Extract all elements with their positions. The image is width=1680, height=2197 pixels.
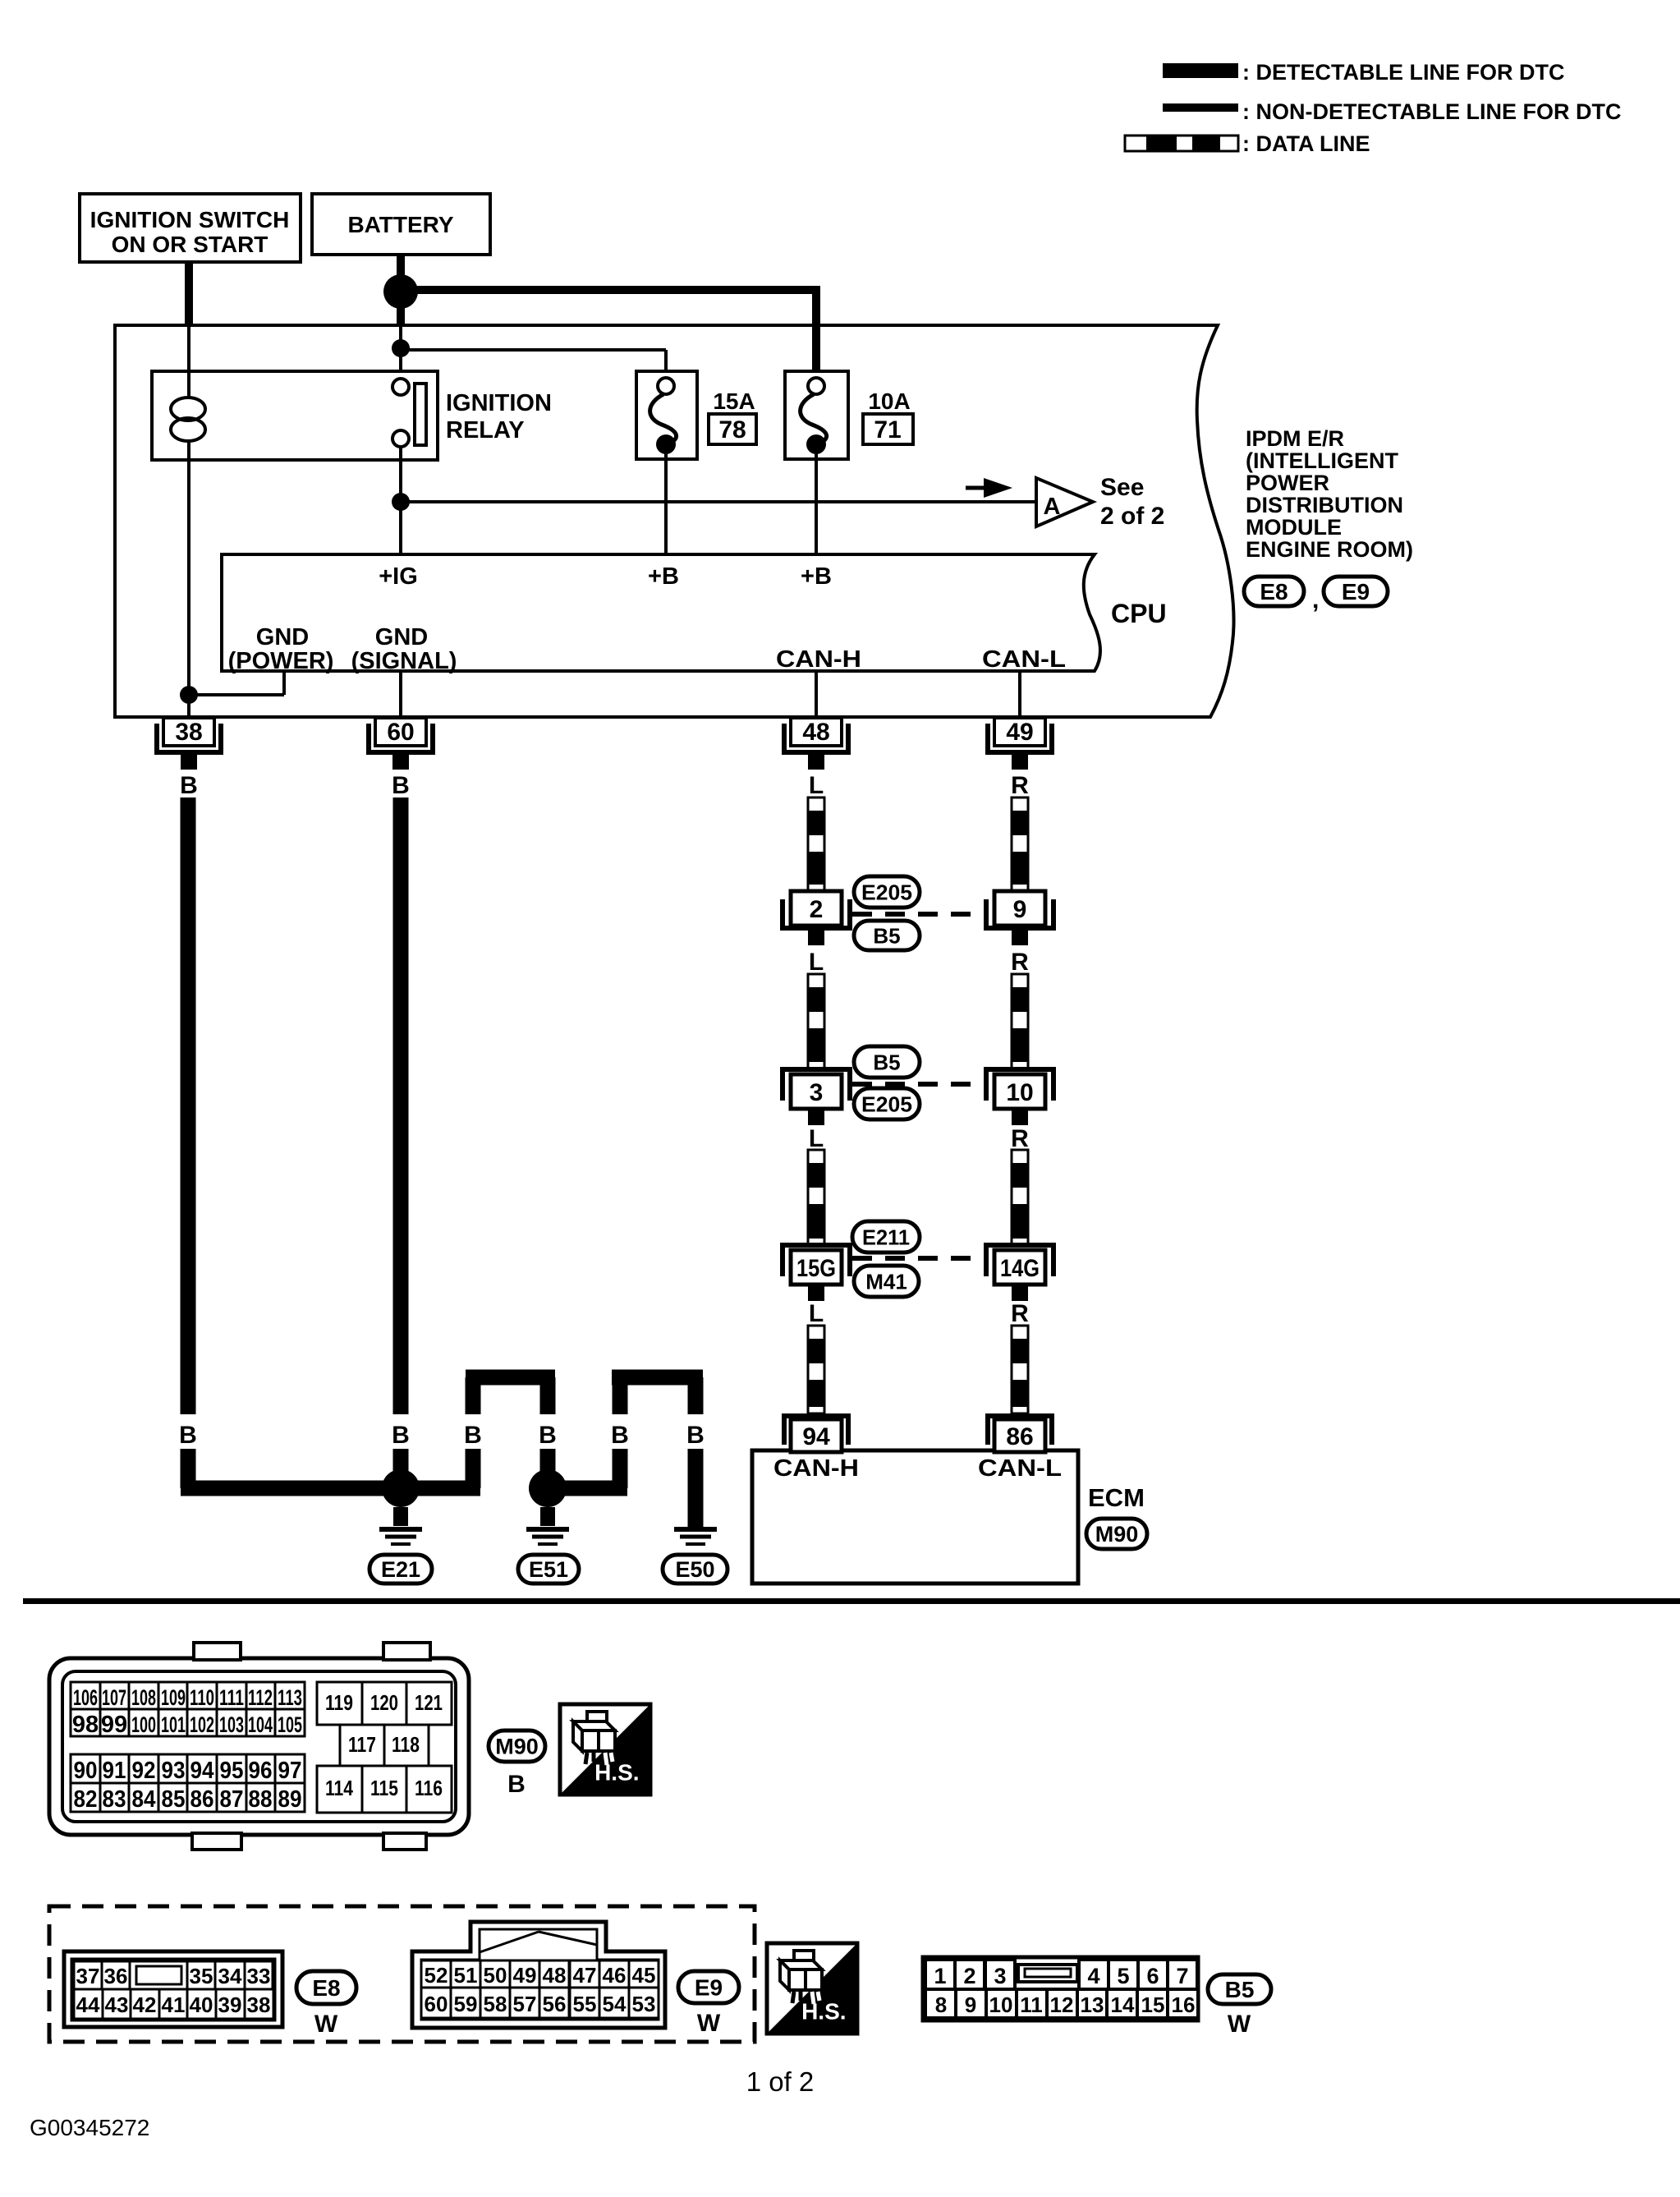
svg-text:9: 9 [965, 1992, 976, 2017]
svg-text:110: 110 [190, 1685, 214, 1710]
svg-text:L: L [809, 1125, 824, 1152]
M90 pin grid upper-left block [71, 1682, 100, 1709]
ground E51 [540, 1507, 555, 1526]
svg-text:43: 43 [105, 1992, 129, 2017]
svg-text:88: 88 [249, 1786, 273, 1813]
connector ref B5 face [1208, 1974, 1271, 2004]
svg-text:54: 54 [603, 1992, 627, 2016]
inline connector pin 15G (E211/M41) [783, 1245, 850, 1276]
svg-text:57: 57 [513, 1992, 537, 2016]
svg-text:111: 111 [219, 1685, 244, 1710]
connector face E8 [64, 1951, 282, 2027]
svg-text:(INTELLIGENT: (INTELLIGENT [1246, 448, 1398, 473]
dashed connector link 15G-14G [852, 1256, 985, 1261]
connector face E9 [412, 1922, 665, 2028]
svg-text:94: 94 [802, 1423, 830, 1450]
svg-text:91: 91 [103, 1758, 126, 1784]
svg-text:4: 4 [1087, 1964, 1099, 1988]
svg-text:L: L [809, 949, 824, 976]
svg-text:94: 94 [190, 1758, 214, 1784]
legend data line bar [1125, 136, 1238, 151]
connector ref E8 face [296, 1971, 356, 2004]
inline connector pin 2 (E205/B5) [783, 899, 850, 928]
svg-text:39: 39 [218, 1992, 242, 2017]
svg-text:,: , [1312, 586, 1319, 614]
svg-text:103: 103 [219, 1712, 244, 1737]
svg-text:MODULE: MODULE [1246, 515, 1342, 540]
svg-text:116: 116 [415, 1776, 443, 1800]
dashed connector link 2-9 [852, 912, 985, 917]
svg-text:G00345272: G00345272 [30, 2115, 149, 2140]
svg-text:CAN-L: CAN-L [982, 646, 1066, 673]
wire ignition switch to IPDM [185, 262, 193, 327]
svg-text:85: 85 [162, 1786, 186, 1813]
M90 pin grid right block row 114-116 [317, 1766, 362, 1813]
svg-text:106: 106 [73, 1685, 98, 1710]
svg-text:POWER: POWER [1246, 471, 1329, 495]
svg-text:: DETECTABLE LINE FOR DTC: : DETECTABLE LINE FOR DTC [1242, 60, 1564, 85]
connector ref E205 [854, 876, 920, 908]
IPDM pin 60 [369, 724, 433, 752]
svg-text:113: 113 [278, 1685, 302, 1710]
svg-text:(POWER): (POWER) [228, 648, 334, 674]
svg-text:B: B [180, 772, 198, 799]
svg-text:9: 9 [1013, 896, 1027, 923]
svg-text:48: 48 [802, 719, 829, 746]
svg-text:BATTERY: BATTERY [347, 212, 453, 237]
svg-text:52: 52 [425, 1963, 448, 1988]
svg-text:16: 16 [1172, 1992, 1196, 2017]
svg-text:96: 96 [249, 1758, 273, 1784]
svg-text:R: R [1011, 1300, 1029, 1327]
svg-text:10A: 10A [868, 388, 910, 414]
svg-text:(SIGNAL): (SIGNAL) [351, 648, 457, 674]
svg-text:See: See [1100, 474, 1144, 501]
inline connector pin 9 (E205/B5) [986, 899, 1053, 928]
svg-text:IGNITION SWITCH: IGNITION SWITCH [90, 207, 290, 232]
svg-text:CAN-H: CAN-H [773, 1455, 859, 1482]
svg-text:53: 53 [632, 1992, 656, 2016]
svg-text:L: L [809, 1300, 824, 1327]
data line CAN-H segment 4 [808, 1326, 824, 1413]
svg-text:1 of 2: 1 of 2 [746, 2066, 815, 2097]
svg-text:E51: E51 [529, 1557, 568, 1582]
M90 shell bottom tab left [192, 1833, 241, 1850]
svg-text:6: 6 [1146, 1964, 1159, 1988]
svg-text:100: 100 [131, 1712, 156, 1737]
wire ground bus left [181, 1481, 480, 1496]
svg-text:112: 112 [248, 1685, 273, 1710]
svg-text:E8: E8 [1260, 579, 1288, 604]
svg-text:120: 120 [370, 1690, 398, 1715]
wire battery down to relay contact [397, 307, 405, 327]
svg-text:M90: M90 [1095, 1522, 1139, 1547]
connector ref M90 [1086, 1519, 1147, 1549]
wire pin 38 ground detectable [181, 797, 196, 1414]
svg-text:89: 89 [278, 1786, 302, 1813]
svg-text:102: 102 [190, 1712, 214, 1737]
connector ref B5 [854, 1046, 920, 1078]
svg-text:2 of 2: 2 of 2 [1100, 503, 1164, 530]
svg-text:CPU: CPU [1111, 599, 1167, 628]
dashed connector link 3-10 [852, 1082, 985, 1087]
svg-text:107: 107 [102, 1685, 126, 1710]
svg-text:ECM: ECM [1088, 1483, 1145, 1512]
svg-text:B5: B5 [1225, 1977, 1255, 2002]
svg-text:E9: E9 [695, 1975, 723, 2001]
svg-text:71: 71 [874, 416, 901, 444]
ground E50 [674, 1527, 717, 1532]
svg-text:15: 15 [1141, 1992, 1165, 2017]
svg-text:40: 40 [190, 1992, 213, 2017]
H.S. harness side icon (E8/E9) [767, 1943, 857, 2034]
IPDM pin 48 [784, 724, 848, 752]
IPDM pin 49 [988, 724, 1052, 752]
svg-text:B: B [464, 1422, 482, 1449]
svg-text:56: 56 [543, 1992, 567, 2016]
svg-text:E21: E21 [381, 1557, 420, 1582]
svg-text:M41: M41 [865, 1269, 907, 1294]
svg-text:82: 82 [74, 1786, 98, 1813]
svg-text:121: 121 [415, 1690, 443, 1715]
svg-text:45: 45 [632, 1963, 656, 1988]
svg-text:115: 115 [370, 1776, 398, 1800]
svg-text:49: 49 [1006, 719, 1033, 746]
svg-text:B5: B5 [873, 923, 900, 948]
battery box [312, 194, 490, 255]
svg-text:CAN-H: CAN-H [776, 646, 861, 673]
svg-text:84: 84 [132, 1786, 156, 1813]
data line CAN-L segment 4 [1012, 1326, 1028, 1413]
connector ref B5 [854, 921, 920, 950]
inline connector pin 10 (B5/E205) [986, 1069, 1053, 1101]
ECM pin 94 [784, 1416, 848, 1445]
svg-text:104: 104 [248, 1712, 273, 1737]
svg-text:DISTRIBUTION: DISTRIBUTION [1246, 493, 1403, 517]
junction node to fuse 15A [392, 339, 410, 357]
svg-text:B: B [611, 1422, 629, 1449]
svg-text:RELAY: RELAY [446, 417, 525, 444]
ground loop U2 [466, 1370, 555, 1386]
svg-text:12: 12 [1050, 1992, 1074, 2017]
connector ref E205 [854, 1088, 920, 1119]
wire ground bus middle [540, 1481, 627, 1496]
svg-text:50: 50 [484, 1963, 507, 1988]
svg-text:+B: +B [801, 563, 832, 590]
svg-text:41: 41 [162, 1992, 186, 2017]
connector face B5 [923, 1957, 1198, 2020]
svg-text:B5: B5 [873, 1050, 900, 1074]
wire ignition switch inside IPDM to relay coil [187, 327, 190, 374]
section separator line [23, 1598, 1680, 1604]
svg-text:58: 58 [484, 1992, 507, 2016]
svg-text:48: 48 [543, 1963, 567, 1988]
wire battery feed down to fuse 10A [812, 286, 820, 378]
svg-text:49: 49 [513, 1963, 537, 1988]
svg-text:46: 46 [603, 1963, 627, 1988]
svg-text:87: 87 [220, 1786, 244, 1813]
svg-text:E205: E205 [861, 1092, 912, 1116]
arrow marker [966, 486, 985, 490]
wire CAN-L to pin 49 [1018, 671, 1021, 717]
svg-text:+IG: +IG [379, 563, 418, 590]
svg-text:38: 38 [247, 1992, 271, 2017]
svg-text:H.S.: H.S. [801, 1998, 846, 2024]
M90 shell top tab left [194, 1643, 241, 1660]
ignition switch box [80, 194, 301, 262]
connector face M90 outer shell [49, 1658, 469, 1835]
wire fuse 15A to CPU +B [664, 448, 668, 554]
svg-text:92: 92 [132, 1758, 156, 1784]
data line CAN-L segment 2 [1012, 974, 1028, 1069]
junction relay output node [399, 447, 402, 503]
connector ref E211 [852, 1221, 920, 1252]
svg-text:59: 59 [454, 1992, 478, 2016]
data line CAN-H segment 1 [808, 797, 824, 891]
svg-text:R: R [1011, 949, 1029, 976]
svg-text:90: 90 [74, 1758, 98, 1784]
svg-text:ON OR START: ON OR START [112, 232, 269, 257]
wire relay output to page arrow [401, 500, 1036, 503]
svg-text:101: 101 [161, 1712, 186, 1737]
ignition relay box [152, 371, 438, 460]
connector ref M41 [854, 1266, 919, 1297]
M90 shell bottom tab right [383, 1833, 426, 1850]
wire CAN-H to pin 48 [815, 671, 818, 717]
wire battery stub [397, 255, 405, 279]
junction battery node [383, 274, 418, 309]
CPU box [222, 554, 1100, 671]
ground loop U3 [612, 1370, 703, 1386]
ECM pin 86 [988, 1416, 1052, 1445]
svg-text:99: 99 [101, 1712, 127, 1738]
svg-text:3: 3 [810, 1079, 824, 1106]
svg-text:14: 14 [1111, 1992, 1135, 2017]
wire node to fuse 15A [401, 348, 666, 352]
svg-text:33: 33 [247, 1964, 271, 1988]
svg-text:B: B [686, 1422, 705, 1449]
relay contact [392, 379, 409, 395]
svg-text:3: 3 [994, 1964, 1006, 1988]
IPDM E/R module box [115, 325, 1233, 717]
svg-text:E9: E9 [1342, 579, 1370, 604]
wire GND SIGNAL to pin 60 [399, 671, 402, 717]
page connector triangle A [1036, 478, 1093, 526]
svg-text:E8: E8 [312, 1975, 340, 2001]
svg-text:E205: E205 [861, 880, 912, 904]
svg-text:95: 95 [220, 1758, 244, 1784]
svg-text:B: B [539, 1422, 557, 1449]
svg-text:117: 117 [348, 1732, 376, 1757]
svg-text:: DATA LINE: : DATA LINE [1242, 131, 1370, 156]
svg-text:118: 118 [392, 1732, 420, 1757]
svg-text:B: B [392, 772, 410, 799]
svg-text:35: 35 [190, 1964, 213, 1988]
svg-text:34: 34 [218, 1964, 242, 1988]
svg-text:GND: GND [256, 624, 309, 650]
svg-text:GND: GND [375, 624, 428, 650]
wire ignition relay coil down to pin 38 [187, 460, 190, 717]
svg-text:10: 10 [1006, 1079, 1033, 1106]
wire fuse 10A to CPU +B [815, 448, 818, 554]
svg-text:51: 51 [454, 1963, 478, 1988]
svg-text:W: W [1228, 2011, 1251, 2038]
svg-text:R: R [1011, 772, 1029, 799]
svg-text:14G: 14G [1000, 1255, 1040, 1282]
svg-text:11: 11 [1020, 1992, 1043, 2017]
svg-text:13: 13 [1081, 1992, 1104, 2017]
svg-text:97: 97 [278, 1758, 302, 1784]
svg-text:W: W [697, 2010, 721, 2037]
svg-text:37: 37 [76, 1964, 100, 1988]
data line CAN-L segment 3 [1012, 1150, 1028, 1245]
svg-text:: NON-DETECTABLE LINE FOR DTC: : NON-DETECTABLE LINE FOR DTC [1242, 99, 1621, 124]
svg-text:CAN-L: CAN-L [978, 1455, 1062, 1482]
B5 keyway slot [1018, 1965, 1077, 1982]
svg-text:78: 78 [718, 416, 746, 444]
relay coil [187, 371, 190, 399]
M90 pin grid right block row 117-118 [340, 1725, 384, 1766]
svg-text:105: 105 [278, 1712, 302, 1737]
svg-text:108: 108 [131, 1685, 156, 1710]
svg-text:119: 119 [325, 1690, 353, 1715]
fuse 15A 78 [636, 371, 697, 459]
svg-text:114: 114 [325, 1776, 353, 1800]
M90 shell top tab right [383, 1643, 430, 1660]
wire pin 60 ground detectable [393, 797, 409, 1414]
svg-text:B: B [507, 1771, 526, 1798]
M90 pin grid right block row 119-121 [317, 1682, 362, 1725]
svg-text:5: 5 [1117, 1964, 1129, 1988]
data line CAN-H segment 2 [808, 974, 824, 1069]
fuse 10A 71 [785, 371, 848, 459]
H.S. harness side icon (M90) [560, 1704, 650, 1795]
svg-text:L: L [809, 772, 824, 799]
svg-text:60: 60 [387, 719, 414, 746]
svg-text:86: 86 [190, 1786, 214, 1813]
connector ref M90 face [489, 1730, 545, 1762]
svg-text:E50: E50 [675, 1557, 714, 1582]
svg-text:10: 10 [989, 1992, 1013, 2017]
ground E21 [393, 1507, 408, 1526]
wire battery thick feed right [401, 286, 816, 294]
svg-text:IGNITION: IGNITION [446, 390, 552, 416]
inline connector pin 3 (B5/E205) [783, 1069, 850, 1101]
svg-text:+B: +B [648, 563, 679, 590]
data line CAN-H segment 3 [808, 1150, 824, 1245]
svg-text:44: 44 [76, 1992, 100, 2017]
IPDM pin 38 [157, 724, 221, 752]
svg-text:93: 93 [162, 1758, 186, 1784]
svg-text:55: 55 [573, 1992, 597, 2016]
data line CAN-L segment 1 [1012, 797, 1028, 891]
legend detectable line bar [1163, 63, 1238, 78]
connector ref E9 face [678, 1971, 739, 2003]
svg-text:47: 47 [573, 1963, 597, 1988]
svg-text:38: 38 [175, 719, 202, 746]
svg-text:2: 2 [963, 1964, 975, 1988]
svg-text:E211: E211 [862, 1225, 910, 1249]
svg-text:1: 1 [934, 1964, 946, 1988]
svg-text:R: R [1011, 1125, 1029, 1152]
connector ref E8 [1244, 577, 1304, 606]
connector ref E9 [1324, 577, 1388, 606]
svg-text:ENGINE ROOM): ENGINE ROOM) [1246, 537, 1413, 562]
svg-text:A: A [1044, 494, 1061, 520]
junction gnd power node [180, 686, 198, 704]
svg-text:86: 86 [1006, 1423, 1033, 1450]
svg-text:109: 109 [161, 1685, 186, 1710]
svg-text:B: B [392, 1422, 410, 1449]
svg-text:W: W [314, 2011, 338, 2038]
junction ground node E21 [382, 1469, 420, 1507]
svg-text:M90: M90 [495, 1735, 539, 1759]
svg-text:60: 60 [425, 1992, 448, 2016]
svg-text:H.S.: H.S. [594, 1759, 639, 1785]
svg-text:2: 2 [810, 896, 824, 923]
svg-text:98: 98 [72, 1712, 99, 1738]
dashed group box E8 E9 [49, 1906, 755, 2042]
junction ground node E51 [529, 1469, 567, 1507]
svg-text:8: 8 [935, 1992, 947, 2017]
ECM box [752, 1450, 1078, 1583]
svg-text:15A: 15A [713, 388, 755, 414]
svg-text:B: B [179, 1422, 197, 1449]
svg-text:83: 83 [103, 1786, 126, 1813]
inline connector pin 14G (E211/M41) [986, 1245, 1053, 1276]
wire GND POWER jog [282, 671, 286, 695]
legend non-detectable line bar [1163, 103, 1238, 112]
svg-text:15G: 15G [796, 1255, 836, 1282]
svg-text:42: 42 [133, 1992, 157, 2017]
svg-text:IPDM E/R: IPDM E/R [1246, 426, 1344, 451]
svg-text:7: 7 [1176, 1964, 1188, 1988]
M90 pin grid lower-left block [71, 1754, 100, 1783]
svg-text:36: 36 [104, 1964, 128, 1988]
